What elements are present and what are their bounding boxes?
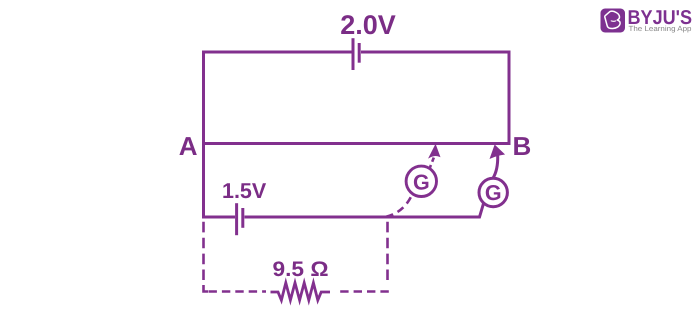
dashed left vertical of 9.5 ohm box [202,222,205,280]
logo BYJU'S square [601,9,626,33]
wire bottom horizontal to galvanometer [245,204,484,218]
battery B1 2.0V short plate [358,43,361,63]
arrowhead jockey at B [490,145,504,158]
dashed arrow shaft from G1 [429,156,434,170]
dashed-position arrowhead on wire AB [429,145,440,158]
svg-text:G: G [413,170,430,194]
galvanometer G1 circle (dashed alternate position) [406,166,436,196]
svg-text:9.5 Ω: 9.5 Ω [273,258,329,281]
wire left vertical A to bottom branch [202,144,205,219]
galvanometer G2 circle (solid branch) [479,178,507,206]
dashed bottom-left segment of 9.5 ohm box [209,290,267,293]
dashed bottom-right segment of 9.5 ohm box [336,290,389,293]
svg-text:The Learning App: The Learning App [629,24,692,33]
battery B2 1.5V short plate [241,208,244,228]
svg-text:A: A [179,131,198,161]
wire arrow shaft from G2 to B [493,156,498,179]
logo BYJU'S B mark [605,11,620,28]
wire top-left segment of 2.0V loop [204,52,352,144]
svg-text:2.0V: 2.0V [340,10,396,40]
resistor R1 9.5 ohm zigzag [271,283,331,300]
wire potentiometer A-B [202,142,511,145]
dashed right vertical of 9.5 ohm box [386,222,389,280]
dashed curve from bottom wire to galvanometer G1 [386,197,411,217]
battery B2 1.5V long plate [235,203,238,235]
battery B1 2.0V long plate [352,38,355,70]
svg-text:1.5V: 1.5V [222,179,267,203]
svg-text:G: G [485,181,502,205]
wire bottom-left segment with 1.5V cell [202,216,235,219]
dashed corner bottom-left of 9.5 ohm box [204,285,209,292]
wire top-right segment of 2.0V loop [361,52,509,144]
svg-text:B: B [513,131,532,161]
